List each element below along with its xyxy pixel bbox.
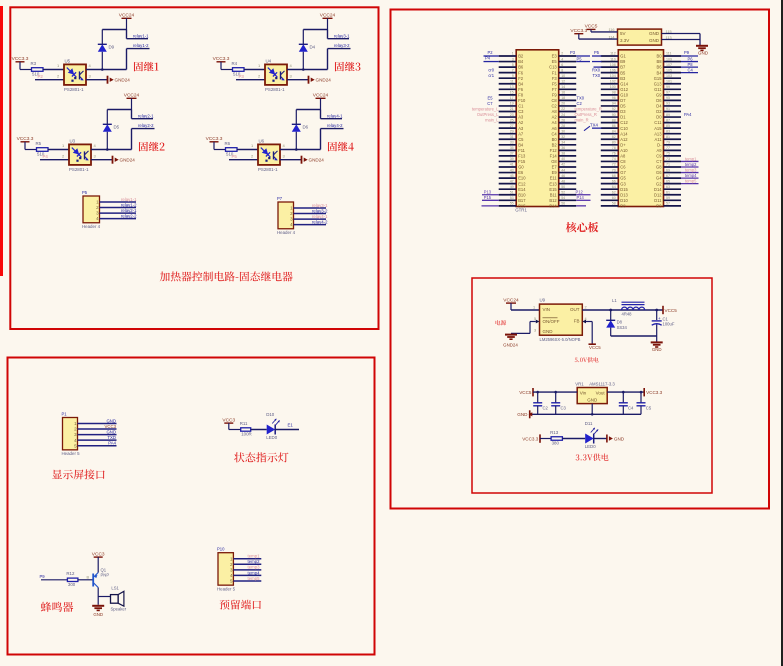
svg-text:6: 6 (561, 63, 563, 67)
svg-text:B4: B4 (518, 59, 524, 64)
svg-text:F14: F14 (550, 154, 558, 159)
svg-text:G11: G11 (654, 87, 662, 92)
svg-text:B4: B4 (518, 81, 524, 86)
svg-text:76: 76 (612, 152, 616, 156)
svg-text:F8: F8 (518, 92, 524, 97)
svg-text:F10: F10 (518, 98, 526, 103)
pin row 10 (pins 94/93) (601, 105, 619, 107)
pin row 19 (pins 37/38) (499, 155, 517, 157)
svg-text:AMS1117-3.3: AMS1117-3.3 (589, 382, 615, 387)
wire Vout to VCC3.3 (607, 391, 644, 393)
svg-text:D11: D11 (585, 421, 593, 426)
svg-text:D5: D5 (114, 125, 120, 130)
svg-text:relay3-1: relay3-1 (334, 33, 350, 38)
svg-text:C5: C5 (646, 405, 652, 410)
svg-text:D1: D1 (620, 115, 626, 120)
svg-text:11: 11 (510, 79, 514, 83)
svg-text:B12: B12 (549, 198, 557, 203)
svg-text:2: 2 (585, 305, 587, 309)
svg-text:C7: C7 (487, 101, 493, 106)
svg-text:104: 104 (610, 74, 616, 78)
pin row 16 (pins 82/81) (601, 138, 619, 140)
svg-text:TXD: TXD (107, 435, 116, 440)
svg-text:C2: C2 (577, 101, 583, 106)
svg-text:E9: E9 (552, 170, 558, 175)
svg-text:GND: GND (649, 31, 660, 36)
wire to relay4-1 stub (320, 110, 322, 119)
svg-text:GND: GND (649, 38, 660, 43)
ground GND (buzzer) (92, 605, 104, 607)
svg-text:temp2: temp2 (685, 162, 697, 167)
svg-text:86: 86 (612, 124, 616, 128)
svg-text:2: 2 (561, 52, 563, 56)
wire D10 to net E1 (276, 429, 300, 431)
temp1-temp5 stub labels (681, 160, 699, 162)
ground GND24 (circuit 4) (301, 156, 303, 164)
svg-text:B6: B6 (518, 65, 524, 70)
svg-text:P5: P5 (232, 154, 238, 159)
svg-text:14: 14 (561, 85, 565, 89)
svg-text:54: 54 (561, 196, 565, 200)
svg-text:C2: C2 (551, 104, 557, 109)
svg-text:GND: GND (106, 418, 116, 423)
svg-text:36: 36 (561, 146, 565, 150)
diode D4 (302, 52, 304, 70)
svg-text:D2: D2 (656, 109, 662, 114)
svg-text:90: 90 (612, 113, 616, 117)
wire VCC3.3 to pin 114 (579, 38, 618, 40)
pin row 26 (pins 51/52) (499, 194, 517, 196)
svg-text:C3: C3 (518, 109, 524, 114)
svg-text:72: 72 (612, 163, 616, 167)
pin row 28 (pins 55/56) (499, 205, 517, 207)
svg-text:24: 24 (561, 113, 565, 117)
svg-text:F2: F2 (518, 76, 524, 81)
pin row 17 (pins 33/34) (499, 144, 517, 146)
block title: core board (566, 222, 599, 232)
svg-text:P8: P8 (688, 62, 694, 67)
svg-text:53: 53 (510, 196, 514, 200)
pin row 17 (pins 80/79) (601, 144, 619, 146)
svg-text:42: 42 (561, 163, 565, 167)
svg-text:41: 41 (510, 163, 514, 167)
junction dots LDO (536, 391, 539, 394)
pin row 4 (pins 7/8) (499, 72, 517, 74)
svg-text:Speaker: Speaker (111, 606, 127, 611)
pin row 7 (pins 100/99) (601, 88, 619, 90)
svg-text:temp5: temp5 (248, 576, 261, 581)
wire VCC24 rail (296, 109, 320, 111)
svg-text:U6: U6 (259, 139, 265, 144)
wire VCC3 to R11 (229, 429, 241, 431)
svg-text:G8: G8 (656, 165, 662, 170)
svg-text:temperature_L: temperature_L (472, 107, 499, 112)
svg-text:67: 67 (666, 174, 670, 178)
svg-text:9: 9 (512, 74, 514, 78)
svg-text:F6: F6 (518, 70, 524, 75)
pin row 21 (pins 41/42) (499, 166, 517, 168)
wire to opto pin 2 (236, 79, 265, 81)
svg-text:E15: E15 (549, 187, 557, 192)
svg-text:E6: E6 (518, 170, 524, 175)
svg-text:GND: GND (614, 436, 625, 441)
svg-text:P4: P4 (43, 154, 49, 159)
svg-text:C10: C10 (620, 126, 628, 131)
svg-text:106: 106 (610, 68, 616, 72)
svg-text:OutPress_R: OutPress_R (575, 112, 597, 117)
svg-text:B14: B14 (549, 203, 557, 208)
pin row 22 (pins 43/44) (499, 172, 517, 174)
connector P7 Header 4 (277, 196, 328, 235)
GTR1 left long wires and net labels (472, 50, 499, 206)
wire to relay3-1 stub (327, 30, 329, 39)
svg-text:temp1: temp1 (248, 554, 261, 559)
svg-text:A8: A8 (552, 109, 558, 114)
svg-text:300: 300 (68, 582, 76, 587)
svg-text:temp4: temp4 (685, 173, 697, 178)
wire to opto pin 2 (35, 79, 64, 81)
svg-text:E5: E5 (487, 95, 493, 100)
svg-text:80: 80 (612, 141, 616, 145)
svg-text:temp1: temp1 (685, 156, 697, 161)
svg-text:A6: A6 (552, 126, 558, 131)
svg-text:D11: D11 (654, 198, 662, 203)
net labels P13 P15 (482, 194, 499, 196)
pin row 25 (pins 49/50) (499, 188, 517, 190)
svg-text:G8: G8 (551, 159, 557, 164)
status LED circuit (222, 412, 299, 462)
svg-text:G4: G4 (656, 176, 662, 181)
svg-text:60: 60 (612, 196, 616, 200)
svg-text:D9: D9 (656, 203, 662, 208)
pin row 23 (pins 45/46) (499, 177, 517, 179)
svg-text:3.3V: 3.3V (620, 38, 629, 43)
svg-text:96: 96 (612, 96, 616, 100)
svg-text:B5: B5 (620, 70, 626, 75)
svg-text:A15: A15 (654, 126, 662, 131)
pin row 7 (pins 13/14) (499, 88, 517, 90)
power VCC3.3 (LDO out) (643, 388, 645, 396)
svg-text:107: 107 (666, 63, 672, 67)
svg-text:51: 51 (510, 190, 514, 194)
svg-text:F12: F12 (550, 148, 558, 153)
wire to opto pin 2 (40, 159, 69, 161)
svg-text:38: 38 (561, 152, 565, 156)
svg-text:E5: E5 (552, 59, 558, 64)
svg-text:D15: D15 (620, 187, 628, 192)
svg-text:G5: G5 (620, 176, 626, 181)
svg-text:B4: B4 (656, 70, 662, 75)
wire D11 to GND (594, 438, 607, 440)
svg-text:D14: D14 (654, 187, 662, 192)
svg-text:cr1: cr1 (488, 73, 494, 78)
svg-text:30: 30 (561, 129, 565, 133)
svg-text:75: 75 (666, 152, 670, 156)
svg-text:71: 71 (666, 163, 670, 167)
svg-text:17: 17 (510, 96, 514, 100)
svg-text:A13: A13 (654, 131, 662, 136)
title 3.3V supply (576, 454, 609, 461)
svg-text:83: 83 (666, 129, 670, 133)
svg-text:main_L: main_L (485, 118, 499, 123)
wire VCC24 rail (303, 29, 327, 31)
svg-text:D9: D9 (109, 45, 115, 50)
junction (106, 148, 109, 151)
svg-text:PS2801-1: PS2801-1 (64, 87, 84, 92)
svg-text:79: 79 (666, 141, 670, 145)
svg-text:GND: GND (106, 430, 116, 435)
catch diode D8 SS34 (610, 310, 612, 320)
svg-text:46: 46 (561, 174, 565, 178)
svg-text:GND24: GND24 (309, 158, 325, 163)
svg-text:Header 5: Header 5 (62, 451, 81, 456)
svg-text:F6: F6 (518, 87, 524, 92)
svg-text:D4: D4 (310, 45, 316, 50)
3.3V LDO supply (AMS1117) (517, 382, 662, 419)
wire VCC24 rail (102, 29, 126, 31)
svg-text:VCC5: VCC5 (519, 390, 532, 395)
ground GND (supply out) (656, 336, 658, 342)
wire to relay2-1 stub (131, 110, 133, 119)
pin row 15 (pins 84/83) (601, 133, 619, 135)
block title: buzzer (41, 602, 73, 612)
ground GND (top right) (696, 45, 708, 47)
svg-text:89: 89 (666, 113, 670, 117)
pin row 24 (pins 47/48) (499, 183, 517, 185)
svg-text:100: 100 (610, 85, 616, 89)
svg-text:ON/OFF: ON/OFF (543, 319, 560, 324)
wire OUT to VCC5 node (582, 309, 662, 311)
net labels P12 P14 (576, 194, 590, 196)
block title: heater control circuit (160, 271, 293, 281)
left partial frame edge (0, 6, 3, 276)
svg-text:temp3: temp3 (248, 565, 261, 570)
svg-text:G10: G10 (620, 92, 628, 97)
solid-state relay drive circuit 2 (17, 93, 165, 172)
pin row 10 (pins 19/20) (499, 105, 517, 107)
svg-text:C9: C9 (656, 154, 662, 159)
wire relay3-2 stub (328, 48, 351, 50)
wire opto pin 4 to node (287, 69, 328, 71)
TX4 long wire (592, 127, 602, 129)
wire R to opto pin 1 (43, 69, 64, 71)
svg-text:R11: R11 (240, 421, 248, 426)
buzzer circuit (40, 551, 127, 617)
svg-text:A14: A14 (620, 131, 628, 136)
pin row 27 (pins 53/54) (499, 199, 517, 201)
svg-text:A11: A11 (655, 137, 663, 142)
wire Q1 collector down (97, 588, 99, 597)
svg-text:PA4: PA4 (684, 112, 692, 117)
core board connector GTR2 (right) (601, 50, 681, 209)
svg-text:relay1-1: relay1-1 (133, 33, 149, 38)
svg-text:27: 27 (510, 124, 514, 128)
svg-text:D13: D13 (620, 192, 628, 197)
svg-text:D6: D6 (303, 125, 309, 130)
svg-text:cr0: cr0 (488, 68, 494, 73)
pin row 11 (pins 21/22) (499, 111, 517, 113)
pin row 25 (pins 64/63) (601, 188, 619, 190)
svg-text:GND24: GND24 (316, 78, 332, 83)
title 5.0V supply (575, 357, 599, 362)
svg-text:relay1-2: relay1-2 (133, 43, 149, 48)
capacitor C3 (555, 392, 557, 403)
svg-text:VR1: VR1 (575, 382, 584, 387)
wire VCC5 to Vin (533, 391, 577, 393)
svg-text:P5: P5 (594, 50, 600, 55)
svg-text:C5: C5 (518, 137, 524, 142)
solid-state relay drive circuit 4 (206, 93, 354, 172)
svg-text:relay4-1: relay4-1 (312, 214, 328, 219)
svg-text:B8: B8 (656, 59, 662, 64)
svg-text:66: 66 (612, 179, 616, 183)
svg-text:GND: GND (652, 347, 662, 352)
svg-text:Vout: Vout (596, 391, 606, 396)
wire opto pin 4 to node (280, 149, 321, 151)
svg-text:B6: B6 (656, 65, 662, 70)
wire VCC24 to VIN (511, 309, 540, 311)
svg-text:U3: U3 (70, 139, 76, 144)
svg-text:relay3-2: relay3-2 (334, 43, 350, 48)
svg-text:91: 91 (666, 107, 670, 111)
svg-text:E12: E12 (518, 181, 526, 186)
core board connector GTR1 (left) (499, 50, 577, 213)
svg-text:4R48: 4R48 (622, 312, 633, 317)
svg-text:92: 92 (612, 107, 616, 111)
pin row 27 (pins 60/59) (601, 199, 619, 201)
svg-text:112: 112 (610, 52, 616, 56)
pin row 14 (pins 86/85) (601, 127, 619, 129)
svg-text:LS1: LS1 (111, 585, 119, 590)
wire opto pin 4 to node (91, 149, 132, 151)
svg-text:65: 65 (666, 179, 670, 183)
svg-text:D4: D4 (656, 104, 662, 109)
pin row 19 (pins 76/75) (601, 155, 619, 157)
svg-text:F9: F9 (552, 92, 558, 97)
svg-text:10: 10 (561, 74, 565, 78)
svg-text:G9: G9 (656, 92, 662, 97)
svg-text:relay3-2: relay3-2 (312, 208, 328, 213)
svg-text:77: 77 (666, 146, 670, 150)
wire VCC5 to pin 116 (591, 31, 618, 33)
svg-text:F5: F5 (552, 81, 558, 86)
svg-text:12: 12 (561, 79, 565, 83)
connector P5 Header 4 (82, 190, 137, 229)
wire R13 to D11 (562, 438, 585, 440)
svg-text:Header 4: Header 4 (277, 230, 296, 235)
title 电源 (496, 320, 507, 325)
svg-text:45: 45 (510, 174, 514, 178)
svg-text:GND: GND (93, 612, 103, 617)
svg-text:A9: A9 (656, 148, 662, 153)
svg-text:P2: P2 (488, 50, 494, 55)
svg-text:64: 64 (612, 185, 616, 189)
svg-text:32: 32 (561, 135, 565, 139)
title 固继2 (139, 142, 165, 152)
svg-text:relay2-1: relay2-1 (138, 113, 154, 118)
pin row 20 (pins 74/73) (601, 160, 619, 162)
pin row 13 (pins 25/26) (499, 122, 517, 124)
svg-text:E10: E10 (518, 176, 526, 181)
pin row 14 (pins 27/28) (499, 127, 517, 129)
pin row 1 (pins 1/2) (499, 55, 517, 57)
svg-text:68: 68 (612, 174, 616, 178)
pin row 16 (pins 31/32) (499, 138, 517, 140)
svg-text:U9: U9 (540, 298, 546, 303)
wire collector to speaker (98, 596, 110, 598)
transistor Q1 PNP (92, 574, 94, 587)
svg-text:VCC3.3: VCC3.3 (522, 437, 539, 442)
svg-text:F3: F3 (552, 76, 558, 81)
svg-text:105: 105 (666, 68, 672, 72)
pin row 4 (pins 106/105) (601, 72, 619, 74)
wire R to opto pin 1 (237, 149, 258, 151)
diode D5 (106, 132, 108, 150)
svg-text:GND: GND (587, 398, 598, 403)
svg-text:P12: P12 (576, 189, 584, 194)
svg-text:R4: R4 (232, 61, 238, 66)
pin row 20 (pins 39/40) (499, 160, 517, 162)
wire to relay1-1 stub (126, 30, 128, 39)
svg-text:47: 47 (510, 179, 514, 183)
svg-text:P1: P1 (62, 411, 68, 416)
svg-text:GTR1: GTR1 (515, 208, 527, 213)
svg-text:relay2-1: relay2-1 (121, 208, 137, 213)
wire R to opto pin 1 (48, 149, 69, 151)
svg-text:P2: P2 (38, 74, 44, 79)
svg-text:VIN: VIN (543, 307, 551, 312)
svg-text:B17: B17 (518, 198, 526, 203)
output capacitor C1 100uF (656, 310, 658, 320)
svg-text:A7: A7 (518, 131, 524, 136)
pin row 5 (pins 104/103) (601, 77, 619, 79)
svg-text:E11: E11 (550, 176, 558, 181)
pin row 9 (pins 96/95) (601, 99, 619, 101)
svg-text:22: 22 (561, 107, 565, 111)
svg-text:62: 62 (612, 190, 616, 194)
FB wire to VCC5 sense (582, 320, 586, 324)
svg-text:94: 94 (612, 102, 616, 106)
svg-text:109: 109 (666, 57, 672, 61)
svg-text:28: 28 (561, 124, 565, 128)
svg-text:34: 34 (561, 141, 565, 145)
pin row 12 (pins 23/24) (499, 116, 517, 118)
solid-state relay drive circuit 1 (12, 13, 159, 92)
svg-text:D0: D0 (656, 115, 662, 120)
svg-text:P9: P9 (684, 50, 690, 55)
svg-text:48: 48 (561, 179, 565, 183)
svg-text:C4: C4 (551, 131, 557, 136)
svg-text:L1: L1 (612, 298, 617, 303)
diode D6 (295, 132, 297, 150)
pin row 9 (pins 17/18) (499, 99, 517, 101)
block title: display interface (52, 469, 104, 479)
svg-text:101: 101 (666, 79, 672, 83)
svg-text:100R: 100R (241, 432, 252, 437)
svg-text:C2: C2 (543, 405, 549, 410)
svg-text:relay4-2: relay4-2 (312, 220, 328, 225)
svg-text:PNP: PNP (101, 572, 110, 577)
svg-text:56: 56 (561, 202, 565, 206)
svg-text:P3: P3 (570, 50, 576, 55)
wire VCC3.3 to R (213, 142, 215, 150)
svg-text:E7: E7 (552, 165, 558, 170)
svg-text:OutPress_L: OutPress_L (477, 112, 499, 117)
ground rail (LDO) (530, 413, 641, 415)
svg-text:A10: A10 (620, 148, 628, 153)
svg-text:temp5: temp5 (685, 179, 697, 184)
svg-text:99: 99 (666, 85, 670, 89)
